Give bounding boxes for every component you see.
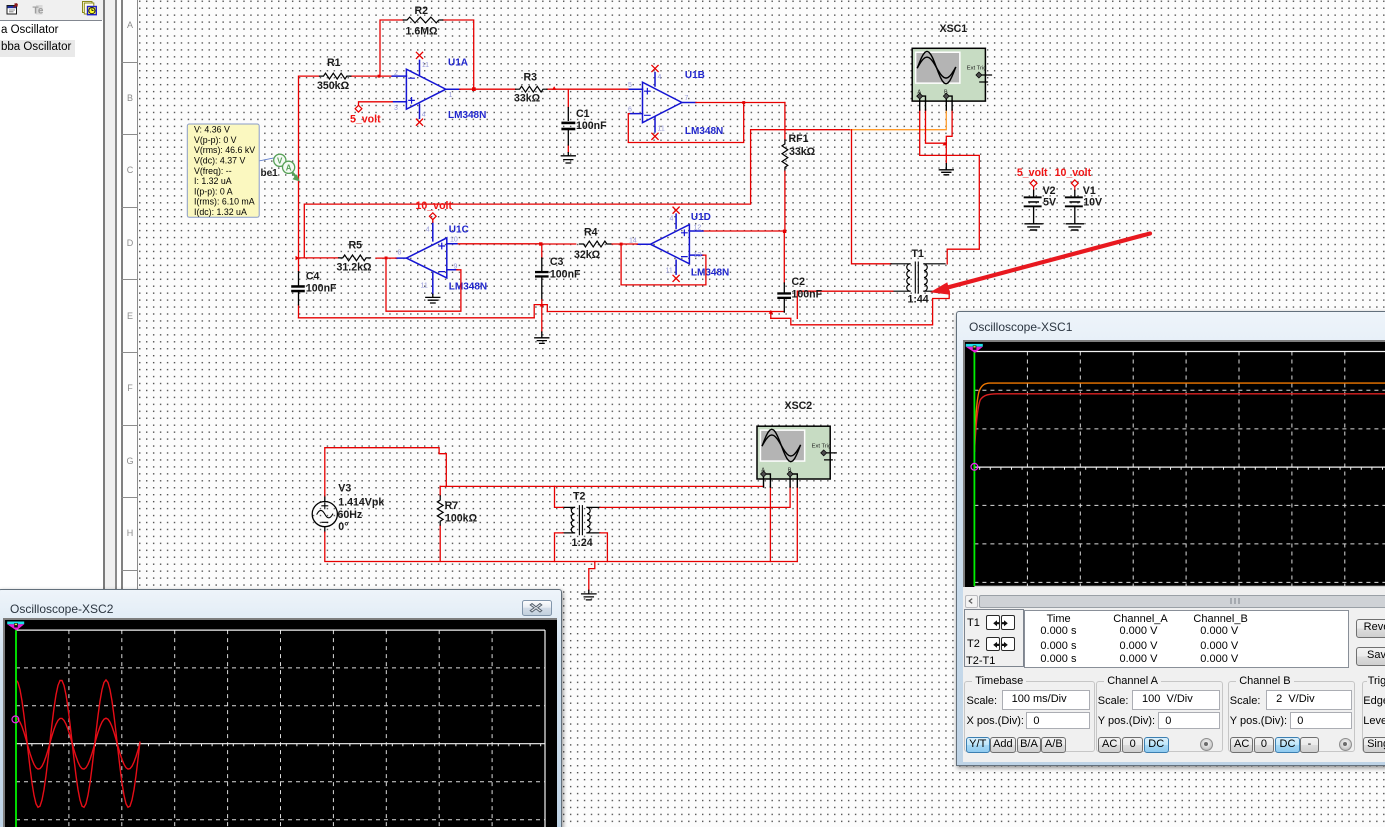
U1B pin numbers [628, 74, 689, 133]
capacitor C4 [291, 258, 337, 318]
grid columns dashed [1027, 352, 1344, 587]
svg-text:6: 6 [628, 107, 632, 114]
Te (text) icon, disabled [33, 5, 44, 17]
new-window icon [7, 4, 17, 14]
close button [522, 600, 552, 616]
oscilloscope icon XSC1 [912, 23, 991, 110]
svg-text:C4: C4 [306, 271, 320, 283]
channel B step response trace (orange) [975, 383, 1385, 452]
svg-text:1.414Vpk: 1.414Vpk [338, 497, 384, 509]
svg-text:5: 5 [628, 82, 632, 89]
svg-text:R2: R2 [415, 5, 429, 17]
svg-text:XSC2: XSC2 [785, 400, 813, 412]
wire rail ground stub [589, 562, 595, 591]
svg-text:13: 13 [694, 252, 702, 259]
net label 5_volt with connector diamond [350, 102, 392, 126]
grid border + axis [974, 352, 1385, 587]
wire V3 top to R7/scope rail [325, 448, 447, 496]
svg-text:7: 7 [685, 95, 689, 102]
svg-text:100nF: 100nF [550, 269, 581, 281]
svg-text:350kΩ: 350kΩ [317, 80, 350, 92]
resistor R2 [403, 5, 443, 38]
svg-text:1: 1 [449, 92, 453, 99]
junction (C3 bottom) [540, 303, 545, 307]
svg-text:10: 10 [450, 237, 458, 244]
wire T2 primary bottom to rail [555, 533, 564, 562]
ac source V3 [312, 483, 384, 534]
svg-text:T1: T1 [912, 248, 924, 260]
op-amp U1B [629, 73, 696, 132]
junction (U1B feedback tap) [742, 101, 745, 104]
green time cursor [15, 630, 17, 827]
junction (R2 top at U1A output) [472, 87, 476, 91]
resistor RF1 [782, 133, 816, 171]
svg-text:R7: R7 [445, 500, 459, 512]
battery V1 [1055, 167, 1102, 230]
probe tooltip [187, 124, 259, 217]
wire C3 node to U1C pin10 [457, 243, 541, 245]
display [963, 340, 1385, 589]
transformer T2 [563, 491, 600, 550]
annotation red arrow [930, 234, 1150, 295]
transformer T1 [891, 248, 945, 306]
junction (R5 left node, arrow) [296, 256, 300, 260]
resistor R5 [337, 240, 373, 274]
svg-text:C3: C3 [550, 256, 564, 268]
svg-text:T2: T2 [573, 491, 585, 503]
svg-text:U1C: U1C [449, 225, 469, 236]
wire T1 secondary bottom loop [771, 291, 949, 325]
svg-text:33kΩ: 33kΩ [514, 93, 541, 105]
svg-text:100nF: 100nF [306, 283, 337, 295]
svg-text:32kΩ: 32kΩ [574, 249, 601, 261]
svg-text:I(rms): 6.10 mA: I(rms): 6.10 mA [194, 197, 255, 207]
svg-text:LM348N: LM348N [448, 110, 486, 121]
probe leader line [259, 158, 274, 161]
axis ticks [980, 467, 1383, 470]
U1A power pin X marks [416, 52, 422, 125]
svg-text:100nF: 100nF [576, 120, 607, 132]
ground (below C1) [561, 153, 575, 163]
wire U1C out to R5 [299, 257, 397, 259]
svg-text:11: 11 [421, 283, 428, 290]
svg-text:4: 4 [426, 227, 430, 234]
svg-text:12: 12 [694, 225, 702, 232]
svg-text:LM348N: LM348N [691, 268, 729, 279]
wire U1B out down to RF1 [784, 103, 786, 141]
svg-text:Ext Trig: Ext Trig [812, 443, 832, 449]
wire scope B2 jog to ground net [946, 110, 952, 144]
oscilloscope icon XSC2 [757, 400, 836, 487]
wire XSC2 A2/B2 grounds to rail [770, 486, 797, 561]
channel B sine trace [16, 718, 140, 769]
channel A step response trace (red) [975, 394, 1385, 452]
svg-text:2: 2 [394, 70, 398, 77]
svg-text:10_volt: 10_volt [416, 200, 453, 212]
readout table [1024, 610, 1349, 668]
svg-text:I(dc): 1.32 uA: I(dc): 1.32 uA [194, 207, 247, 217]
svg-text:LM348N: LM348N [449, 282, 487, 293]
svg-text:Ext Trig: Ext Trig [967, 66, 987, 72]
axis ticks [22, 741, 541, 746]
svg-text:1.6MΩ: 1.6MΩ [406, 26, 439, 38]
svg-text:C1: C1 [576, 108, 590, 120]
client area [963, 581, 1385, 762]
U1D pin numbers [629, 216, 701, 275]
wire T1 primary bottom to ground net [797, 291, 893, 318]
svg-text:R1: R1 [327, 57, 341, 69]
wire R1 left / down to R5 node [299, 76, 393, 258]
svg-text:31.2kΩ: 31.2kΩ [337, 262, 373, 274]
wire U1A out to R3 [460, 88, 629, 90]
resistor R7 [437, 486, 477, 561]
toolbar icons svg [0, 0, 103, 20]
junction (C3 top node) [539, 242, 542, 245]
wire U1B feedback (pin6 to output) [628, 103, 743, 143]
wire U1D output to R4 [611, 243, 637, 245]
op-amp U1C (mirrored) [396, 222, 457, 294]
svg-text:XSC1: XSC1 [940, 23, 968, 35]
svg-text:V(freq): --: V(freq): -- [194, 166, 232, 176]
junction (R2/R1 at U1A inverting input) [378, 75, 381, 78]
svg-text:I: 1.32 uA: I: 1.32 uA [194, 176, 232, 186]
right buttons (clipped) [1356, 619, 1385, 638]
ground (U1C pin 11) [426, 294, 440, 303]
sheet row letters [124, 20, 136, 30]
wire ground net horizontal (C3 to C2) [547, 312, 784, 319]
svg-text:V(rms): 46.6 kV: V(rms): 46.6 kV [194, 145, 255, 155]
Trigger group (clipped) [1362, 681, 1385, 752]
recent-files clock icon [83, 2, 97, 15]
wire U1D+ node to pin 12 [703, 230, 785, 232]
svg-text:5_volt: 5_volt [350, 114, 381, 126]
wire R4 to C3 node [541, 243, 576, 245]
wire U1C feedback (pin9 to output node) [386, 258, 461, 311]
ground (below C3) [535, 332, 549, 343]
svg-text:5V: 5V [1043, 197, 1056, 209]
svg-text:V(dc): 4.37 V: V(dc): 4.37 V [194, 156, 245, 166]
start segment (blue) [973, 451, 975, 464]
Channel A group [1096, 681, 1223, 752]
op-amp U1D (mirrored) [637, 214, 703, 274]
svg-text:10V: 10V [1083, 197, 1102, 209]
svg-text:1:44: 1:44 [908, 294, 929, 306]
wire junction down to T1 primary top [852, 130, 892, 264]
Channel B group [1228, 681, 1355, 752]
svg-text:100kΩ: 100kΩ [445, 513, 478, 525]
svg-text:V(p-p): 0 V: V(p-p): 0 V [194, 135, 237, 145]
svg-text:be1: be1 [261, 168, 279, 179]
svg-text:U1B: U1B [685, 70, 705, 81]
resistor R3 [514, 72, 547, 105]
junction (U1D out / feedback) [620, 243, 623, 246]
net label 10_volt with connector diamond [416, 200, 453, 222]
wire T2 secondary bottom to rail [600, 533, 607, 562]
wire C3 ground drop [541, 305, 543, 332]
Timebase group [964, 681, 1094, 752]
svg-text:1:24: 1:24 [572, 537, 593, 549]
ground (below T2) [582, 590, 596, 600]
wire V3 bottom rail [325, 532, 798, 561]
svg-text:5_volt: 5_volt [1017, 167, 1048, 179]
junction (R3/C1 node) [552, 86, 557, 90]
wire T2 secondary top to XSC2 input B [600, 486, 790, 507]
wire scope A2 down [926, 110, 947, 144]
U1D power pin X marks [673, 207, 679, 281]
U1C pin numbers [398, 227, 458, 290]
battery V2 [1017, 167, 1056, 230]
svg-text:V1: V1 [1083, 185, 1096, 197]
svg-text:U1D: U1D [691, 212, 711, 223]
svg-text:V: 4.36 V: V: 4.36 V [194, 125, 230, 135]
wire bottom ground loop [299, 317, 535, 319]
green time cursor [973, 352, 975, 587]
svg-text:U1A: U1A [448, 58, 468, 69]
svg-text:11: 11 [658, 126, 665, 133]
wire orange to scope B [851, 110, 947, 130]
wire scope A to T1 secondary top [920, 110, 980, 264]
svg-text:11: 11 [666, 268, 673, 275]
wire U1B output [696, 102, 785, 104]
grid columns dashed [69, 630, 492, 827]
U1B power pin X marks [652, 65, 658, 139]
svg-text:4: 4 [422, 112, 426, 119]
wire rail to XSC2 input A [440, 485, 763, 487]
svg-text:C2: C2 [792, 276, 806, 288]
svg-text:11: 11 [422, 62, 429, 69]
svg-text:100nF: 100nF [792, 289, 823, 301]
resistor R1 [317, 57, 351, 92]
svg-text:10_volt: 10_volt [1055, 167, 1092, 179]
trigger marker [7, 622, 24, 625]
wire RF1 bottom to U1D+ node [784, 171, 786, 231]
capacitor C1 [561, 89, 607, 152]
wire C3 bottom jogs [534, 300, 547, 318]
svg-text:V2: V2 [1043, 185, 1056, 197]
wire U1D feedback (pin13 to output node) [621, 244, 706, 285]
svg-text:0°: 0° [338, 521, 348, 533]
grid border + axis [16, 630, 545, 827]
wire 10_volt rail to T1/scope-B net [304, 130, 850, 258]
svg-text:A: A [286, 163, 292, 172]
resistor R4 [574, 227, 611, 262]
wire scope ground drop [945, 143, 947, 163]
svg-text:60Hz: 60Hz [338, 509, 363, 521]
T1/T2 cursor box [964, 609, 1023, 667]
svg-text:3: 3 [394, 105, 398, 112]
wire T2 primary top from rail [555, 486, 564, 507]
svg-text:R4: R4 [584, 227, 598, 239]
ground (below XSC1 icon) [939, 164, 953, 175]
U1A pin numbers [394, 62, 453, 119]
capacitor C3 [535, 244, 581, 300]
probe icon (V/A) [274, 154, 300, 181]
channel A sine trace [16, 680, 140, 807]
trigger marker [966, 344, 983, 347]
svg-text:RF1: RF1 [789, 133, 809, 145]
junction (U1C out / feedback) [385, 257, 388, 260]
svg-text:8: 8 [398, 250, 402, 257]
junction (C2 bottom / ground net) [769, 310, 774, 314]
svg-text:R3: R3 [524, 72, 538, 84]
svg-text:I(p-p): 0 A: I(p-p): 0 A [194, 186, 233, 196]
scrollbar [963, 587, 1385, 604]
channel A marker [971, 463, 978, 470]
capacitor C2 [777, 231, 822, 312]
svg-text:LM348N: LM348N [685, 126, 723, 137]
svg-text:33kΩ: 33kΩ [789, 146, 816, 158]
junction (RF1 / U1D+ / C2) [783, 230, 786, 233]
svg-text:R5: R5 [349, 240, 363, 252]
channel B marker [12, 716, 19, 723]
junction (scope ground net) [943, 142, 948, 146]
op-amp U1A [392, 60, 460, 118]
grid rows dashed [16, 668, 545, 820]
svg-text:V: V [277, 156, 283, 165]
svg-text:V3: V3 [338, 483, 351, 495]
wire R2 feedback loop [380, 20, 474, 89]
grid rows dashed [974, 390, 1385, 582]
svg-text:4: 4 [658, 74, 662, 81]
svg-text:4: 4 [670, 216, 674, 223]
